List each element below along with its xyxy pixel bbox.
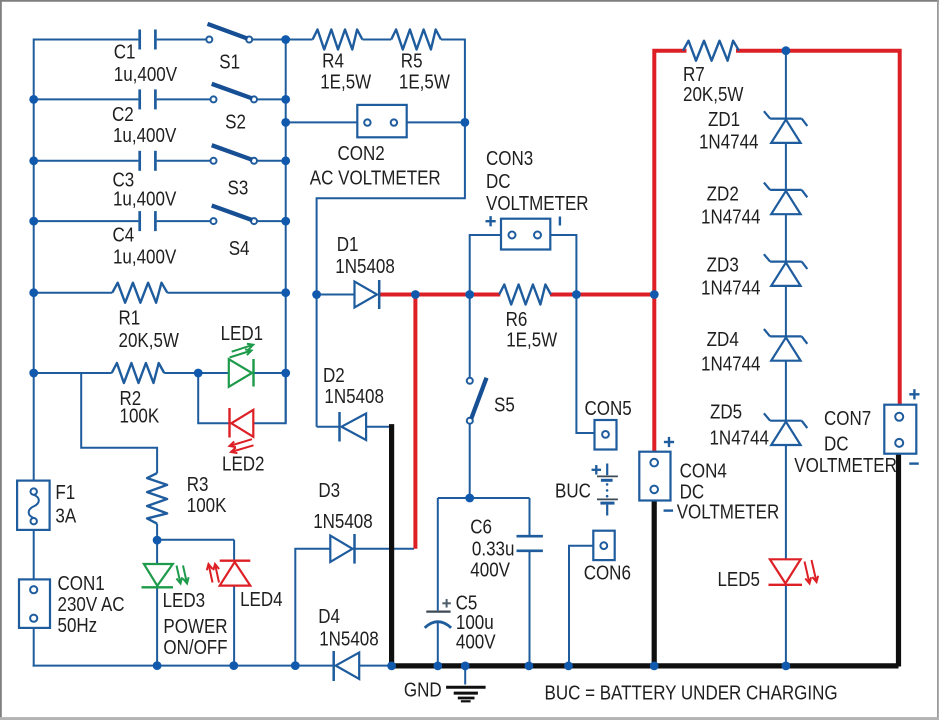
svg-text:D1: D1	[337, 232, 359, 255]
svg-text:ON/OFF: ON/OFF	[163, 636, 227, 659]
svg-text:LED1: LED1	[221, 322, 264, 345]
junction bottom / CON4	[650, 662, 659, 671]
svg-text:S2: S2	[225, 110, 246, 133]
svg-text:LED5: LED5	[718, 567, 761, 590]
svg-text:D4: D4	[318, 605, 340, 628]
svg-text:100K: 100K	[187, 494, 227, 517]
switch S3	[211, 158, 217, 164]
junction left bus / C4	[29, 217, 38, 226]
junction right bus / S1-R4	[281, 35, 290, 44]
wire black bottom	[390, 663, 899, 668]
junction bottom / GND	[461, 662, 470, 671]
svg-text:1N4744: 1N4744	[710, 426, 770, 449]
wire C5-C6 top	[438, 497, 530, 499]
svg-text:VOLTMETER: VOLTMETER	[486, 191, 589, 214]
svg-text:S3: S3	[228, 176, 249, 199]
junction bottom / CON6	[564, 662, 573, 671]
wire D1 anode	[317, 294, 355, 296]
zener ZD4	[770, 335, 802, 337]
diode D2	[342, 414, 367, 441]
resistor R1	[112, 283, 167, 303]
wire CON3 left	[470, 235, 501, 295]
LED1	[229, 359, 252, 387]
junction S5 / C5-C6	[465, 494, 474, 503]
svg-text:CON3: CON3	[486, 146, 533, 169]
svg-text:GND: GND	[404, 678, 442, 701]
wire R1 row	[34, 292, 113, 294]
svg-text:CON1: CON1	[58, 571, 105, 594]
svg-text:ZD3: ZD3	[707, 253, 739, 276]
resistor R5	[391, 30, 441, 50]
svg-text:20K,5W: 20K,5W	[118, 329, 179, 352]
wire black CON7 drop	[896, 454, 901, 667]
svg-text:VOLTMETER: VOLTMETER	[677, 500, 780, 523]
connector CON6	[593, 531, 614, 560]
CON4 minus	[664, 509, 674, 511]
fuse F1	[17, 481, 50, 530]
capacitor C4	[138, 211, 141, 231]
capacitor C5	[426, 610, 450, 612]
svg-text:C4: C4	[112, 223, 134, 246]
wire R2 row	[34, 372, 112, 374]
wire red top right	[736, 51, 900, 405]
CON7 minus	[909, 462, 919, 464]
svg-text:S5: S5	[494, 393, 515, 416]
svg-text:3A: 3A	[55, 504, 76, 527]
junction bottom / D3 branch	[291, 661, 300, 670]
wire CON5	[576, 295, 594, 434]
svg-text:CON4: CON4	[680, 459, 727, 482]
resistor R2	[112, 363, 165, 383]
svg-text:R4: R4	[322, 49, 344, 72]
junction left bus / R2	[29, 369, 38, 378]
svg-text:1E,5W: 1E,5W	[506, 328, 557, 351]
connector CON3	[501, 219, 550, 250]
wire zener chain	[785, 51, 787, 119]
zener ZD1	[770, 117, 802, 119]
wire red tee to D3	[413, 295, 417, 549]
wire GND stub	[464, 666, 466, 685]
switch S5	[467, 378, 473, 384]
junction red rail / S5	[465, 290, 474, 299]
LED2	[231, 410, 253, 437]
svg-text:S4: S4	[229, 236, 250, 259]
wire CON6	[569, 546, 593, 667]
wire right bus	[285, 40, 287, 424]
wire C4 row	[34, 220, 139, 222]
wire black D2 drop	[389, 427, 392, 666]
junction red top / zener chain	[782, 46, 791, 55]
connector CON5	[595, 420, 617, 450]
connector CON2	[357, 105, 406, 137]
svg-text:400V: 400V	[456, 630, 496, 653]
svg-text:CON2: CON2	[338, 142, 385, 165]
junction right bus / S4	[281, 217, 290, 226]
svg-text:D3: D3	[318, 478, 340, 501]
junction left bus / C3	[29, 156, 38, 165]
wire CON2 row	[286, 121, 358, 123]
zener ZD5	[770, 420, 802, 422]
svg-text:F1: F1	[55, 480, 75, 503]
capacitor C1	[138, 30, 141, 50]
zener ZD3	[770, 261, 802, 263]
junction CON2 right	[461, 118, 470, 127]
wire LED3-LED4 tee	[157, 539, 234, 541]
svg-text:POWER: POWER	[163, 614, 227, 637]
svg-text:ZD5: ZD5	[710, 400, 742, 423]
svg-text:1N5408: 1N5408	[319, 627, 379, 650]
wire LED5 bottom	[785, 585, 787, 667]
wire S5 top	[469, 295, 471, 378]
svg-text:ZD1: ZD1	[708, 107, 740, 130]
svg-text:S1: S1	[219, 50, 240, 73]
svg-text:1N5408: 1N5408	[324, 385, 384, 408]
svg-text:ZD4: ZD4	[707, 327, 739, 350]
wire LED4 column	[233, 540, 235, 561]
switch S4	[211, 218, 217, 224]
svg-text:1N5408: 1N5408	[335, 255, 395, 278]
svg-text:1N4744: 1N4744	[699, 130, 759, 153]
junction left bus / C2	[29, 95, 38, 104]
wire LED2 loop	[198, 373, 229, 423]
wire C1 row	[34, 39, 139, 41]
svg-text:LED3: LED3	[163, 589, 206, 612]
junction red rail / CON4 riser	[650, 290, 659, 299]
ground	[446, 686, 486, 689]
wire top row	[286, 39, 313, 41]
svg-text:ZD2: ZD2	[707, 182, 739, 205]
junction right bus / CON2	[281, 118, 290, 127]
CON3 minus	[559, 217, 561, 226]
junction red rail / R6-CON5	[572, 290, 581, 299]
svg-text:1u,400V: 1u,400V	[113, 124, 177, 147]
capacitor C2	[138, 89, 141, 109]
svg-text:0.33u: 0.33u	[472, 537, 515, 560]
resistor R7	[683, 41, 739, 61]
svg-text:1N4744: 1N4744	[701, 352, 761, 375]
junction bottom / C5	[433, 662, 442, 671]
wire C2 row	[34, 98, 139, 100]
capacitor C3	[138, 151, 141, 171]
junction bottom / D2 black drop	[387, 662, 396, 671]
resistor R3	[147, 473, 167, 524]
svg-text:400V: 400V	[470, 558, 510, 581]
LED5	[770, 559, 801, 583]
svg-text:DC: DC	[824, 432, 849, 455]
junction right bus / R2-LED1	[281, 369, 290, 378]
svg-text:LED4: LED4	[240, 588, 283, 611]
junction bottom / LED5	[782, 662, 791, 671]
diode D4	[336, 653, 360, 680]
wire D2 row	[317, 426, 340, 428]
wire D3 anode branch	[295, 549, 330, 666]
svg-text:BUC = BATTERY UNDER CHARGING: BUC = BATTERY UNDER CHARGING	[545, 681, 838, 704]
wire R3 branch	[81, 373, 157, 473]
svg-text:C2: C2	[112, 102, 134, 125]
junction R3 / LED3-LED4	[153, 536, 162, 545]
junction right bus / R1	[281, 288, 290, 297]
wire C3 row	[34, 160, 139, 162]
switch S1	[206, 37, 212, 43]
junction bottom / LED3	[153, 661, 162, 670]
svg-text:1N5408: 1N5408	[313, 510, 373, 533]
wire left bus	[33, 39, 35, 481]
svg-text:1E,5W: 1E,5W	[399, 70, 450, 93]
wire red main riser	[654, 51, 686, 452]
svg-text:230V AC: 230V AC	[58, 593, 125, 616]
CON7 plus	[909, 393, 919, 395]
diode D1	[355, 282, 378, 308]
battery BUC	[606, 464, 608, 476]
wire R5-CON2 drop	[317, 39, 465, 427]
CON4 plus	[664, 441, 674, 443]
junction left bus / R1	[29, 288, 38, 297]
junction right bus / S2	[281, 95, 290, 104]
svg-text:1N4744: 1N4744	[701, 276, 761, 299]
svg-text:CON7: CON7	[824, 407, 871, 430]
wire C6 leads	[529, 498, 531, 535]
svg-text:CON5: CON5	[585, 397, 632, 420]
svg-text:C6: C6	[470, 515, 492, 538]
junction R2 / R3 branch	[194, 369, 203, 378]
wire red D1 row	[379, 293, 500, 297]
svg-text:1u,400V: 1u,400V	[113, 187, 177, 210]
resistor R6	[499, 285, 551, 305]
connector CON1	[19, 579, 50, 628]
svg-text:50Hz: 50Hz	[58, 614, 98, 637]
svg-text:1u,400V: 1u,400V	[114, 63, 178, 86]
svg-text:R5: R5	[401, 49, 423, 72]
svg-text:R6: R6	[506, 308, 528, 331]
svg-text:D2: D2	[323, 364, 345, 387]
wire C5 lead	[437, 498, 439, 610]
svg-text:20K,5W: 20K,5W	[683, 82, 744, 105]
wire S5 bottom	[469, 424, 471, 498]
resistor R4	[313, 30, 363, 50]
svg-text:CON6: CON6	[584, 561, 631, 584]
svg-text:1N4744: 1N4744	[701, 205, 761, 228]
LED3	[144, 564, 173, 586]
wire black CON4 drop	[652, 501, 657, 667]
junction right bus / S3	[281, 156, 290, 165]
svg-text:VOLTMETER: VOLTMETER	[794, 454, 897, 477]
CON3 plus	[486, 220, 496, 222]
diode D3	[330, 536, 352, 562]
connector CON7	[884, 405, 916, 454]
frame border	[0, 0, 939, 2]
junction bottom / LED4	[229, 661, 238, 670]
switch S2	[211, 96, 217, 102]
wire D3 cathode	[355, 548, 415, 550]
svg-text:DC: DC	[486, 169, 511, 192]
connector CON4	[639, 452, 670, 501]
svg-text:AC VOLTMETER: AC VOLTMETER	[310, 166, 441, 189]
capacitor C6	[517, 535, 543, 538]
svg-text:100K: 100K	[120, 404, 160, 427]
svg-text:1E,5W: 1E,5W	[320, 70, 371, 93]
junction bottom / C6	[525, 662, 534, 671]
zener ZD2	[770, 189, 802, 191]
svg-text:LED2: LED2	[222, 452, 265, 475]
svg-text:R3: R3	[187, 472, 209, 495]
junction D1 anode	[312, 290, 321, 299]
svg-text:C1: C1	[114, 40, 136, 63]
junction red rail / D3 tee	[411, 290, 420, 299]
svg-text:BUC: BUC	[555, 479, 591, 502]
svg-text:1u,400V: 1u,400V	[113, 245, 177, 268]
LED4	[220, 562, 251, 586]
wire bottom left	[33, 665, 333, 667]
svg-text:R1: R1	[118, 306, 140, 329]
wire CON3 right	[550, 235, 576, 295]
